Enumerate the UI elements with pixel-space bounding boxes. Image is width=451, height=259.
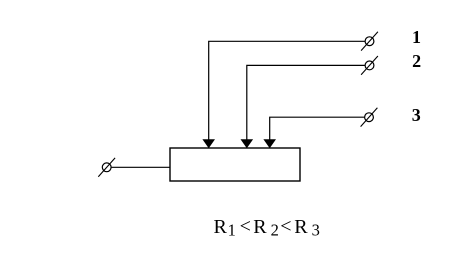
terminal 2, circle with slash [361, 56, 378, 75]
terminal 3, circle with slash [361, 108, 378, 127]
formula R1 < R2 < R3 [214, 215, 320, 239]
wire 3 (from terminal 3 down to tap 3) [270, 117, 365, 140]
resistor box (tapped resistor body) [170, 148, 300, 181]
svg-text:2: 2 [271, 220, 279, 239]
svg-text:2: 2 [412, 51, 421, 71]
svg-text:1: 1 [412, 27, 421, 47]
label 3 (terminal 3 number) [412, 105, 421, 125]
terminal 1, circle with slash [361, 32, 378, 51]
svg-text:3: 3 [412, 105, 421, 125]
wire 2 (from terminal 2 down to tap 2) [247, 65, 365, 140]
svg-text:R: R [214, 216, 228, 238]
terminal (left input), circle with slash [98, 158, 115, 177]
arrowhead tap 1 [202, 139, 215, 148]
svg-text:<: < [240, 215, 251, 237]
svg-text:3: 3 [312, 220, 320, 239]
label 2 (terminal 2 number) [412, 51, 421, 71]
svg-text:R: R [253, 216, 267, 238]
arrowhead tap 2 [241, 139, 254, 148]
arrowhead tap 3 [263, 139, 276, 148]
wire 1 (from terminal 1 down to tap 1) [209, 41, 365, 140]
label 1 (terminal 1 number) [412, 27, 421, 47]
svg-text:<: < [280, 215, 291, 237]
wire from left terminal to resistor box [111, 166, 170, 168]
svg-text:R: R [294, 216, 308, 238]
svg-text:1: 1 [228, 220, 236, 239]
